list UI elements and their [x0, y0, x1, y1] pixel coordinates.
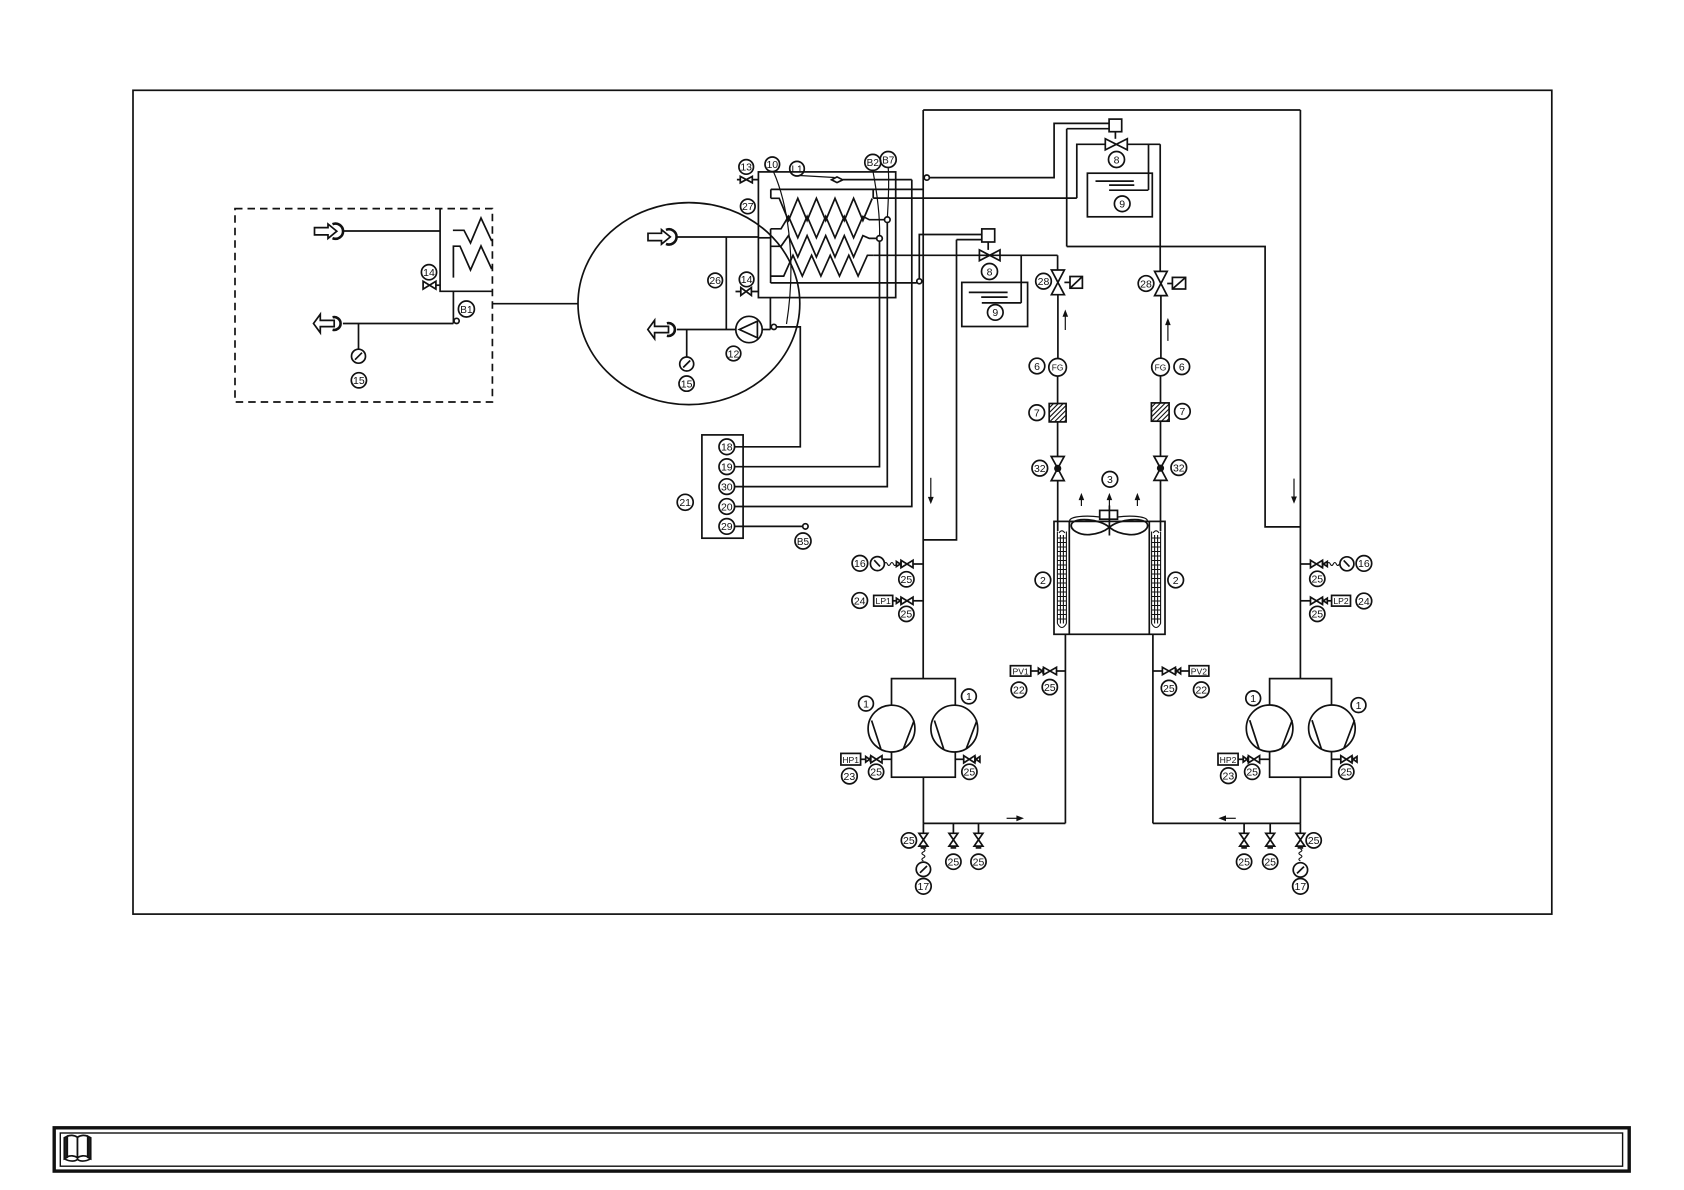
- label 12: [726, 346, 741, 361]
- HX-B header right step: [872, 189, 874, 198]
- svg-text:25: 25: [1264, 857, 1276, 869]
- HX-B left manifold: [770, 229, 772, 283]
- label 2 (right): [1168, 572, 1184, 588]
- svg-text:10: 10: [766, 159, 778, 171]
- filter drier 7 (circuit 1): [1049, 404, 1066, 422]
- outlet wire to out-arrow: [343, 323, 454, 325]
- svg-text:25: 25: [1044, 682, 1056, 694]
- svg-text:25: 25: [903, 835, 915, 847]
- receiver 9 (mid) liquid levels: [969, 292, 1021, 303]
- svg-text:32: 32: [1173, 462, 1185, 474]
- label 24 (circuit 2): [1356, 593, 1372, 609]
- coil element right (2): [1152, 531, 1161, 628]
- flow arrow down (circuit 2): [1291, 479, 1297, 504]
- pipe below valve 28 right: [1160, 296, 1162, 359]
- HX-A coil zigzag lower: [453, 246, 491, 278]
- receiver inlet dip tube (top): [1148, 144, 1150, 190]
- sensor arm line: [771, 282, 917, 284]
- terminal 29: [719, 519, 735, 535]
- svg-text:9: 9: [992, 307, 998, 319]
- wire L1 to terminal 20: [735, 180, 912, 507]
- wire B2 to terminal 19: [735, 241, 880, 467]
- wire inlet arrow to HX-A: [343, 230, 440, 232]
- label 10: [765, 157, 780, 172]
- leader line label 10: [774, 172, 791, 324]
- control line HX port to solenoid 8 top: [1067, 129, 1109, 247]
- fan blade right: [1109, 520, 1147, 535]
- svg-text:25: 25: [1246, 767, 1258, 779]
- discharge drop pipe (c2): [1299, 777, 1301, 823]
- coil partition right: [1148, 521, 1150, 634]
- label 25 (c1 drain 2): [946, 854, 961, 869]
- label 25 (HP2): [1245, 764, 1260, 779]
- HX-B header line top: [771, 188, 923, 190]
- outlet flow arrow (dashed box): [314, 314, 341, 333]
- HP1 transducer assembly: [841, 753, 892, 765]
- coil element left (2): [1057, 531, 1066, 628]
- svg-text:22: 22: [1195, 685, 1207, 697]
- sensor arm riser to solenoid: [919, 235, 982, 279]
- terminal 18: [719, 439, 735, 455]
- HP2 transducer assembly: [1218, 753, 1270, 765]
- pipe filter to valve 32 (circuit 1): [1057, 422, 1059, 457]
- LP1 transducer assembly: [874, 595, 924, 606]
- fan blade left: [1071, 520, 1109, 535]
- label 25 (c2 drain 1): [1237, 854, 1252, 869]
- leader line L1 to level sensor: [800, 176, 835, 178]
- svg-text:1: 1: [1250, 693, 1256, 705]
- svg-text:25: 25: [1340, 767, 1352, 779]
- equalizer line to suction main 2: [1067, 247, 1301, 527]
- tank inlet flow arrow: [648, 229, 677, 244]
- svg-text:25: 25: [1238, 857, 1250, 869]
- label 13: [739, 160, 754, 175]
- svg-text:B7: B7: [882, 155, 895, 166]
- HX-B box: [758, 172, 895, 298]
- svg-text:L1: L1: [791, 165, 803, 176]
- label 25 (c2 right valve): [1339, 764, 1354, 779]
- svg-text:B2: B2: [867, 158, 880, 169]
- outer frame border: [133, 90, 1552, 914]
- svg-text:29: 29: [721, 521, 733, 533]
- label 32 (circuit 2): [1171, 460, 1187, 476]
- tank top wire to HX-B: [676, 236, 758, 238]
- svg-text:28: 28: [1038, 276, 1050, 288]
- LP2 transducer assembly: [1300, 595, 1350, 606]
- svg-text:21: 21: [679, 497, 691, 509]
- control line lower to solenoid 8 mid: [957, 239, 982, 241]
- label 25 (LP1): [899, 606, 914, 621]
- drain valve 1 (c2): [1240, 823, 1249, 848]
- svg-text:15: 15: [681, 378, 693, 390]
- label 25 (LP2): [1310, 606, 1325, 621]
- label 25 (c1 right valve): [962, 764, 977, 779]
- svg-text:B1: B1: [460, 305, 473, 316]
- sight glass FG (circuit 2): [1152, 358, 1170, 376]
- tap node on suction main 1: [924, 175, 929, 180]
- drain valve 2 (c2): [1266, 823, 1275, 848]
- svg-text:B5: B5: [797, 537, 810, 548]
- svg-text:16: 16: [854, 558, 866, 570]
- suction/discharge manifold box (c2): [1270, 679, 1332, 778]
- label 26: [708, 273, 723, 288]
- label B2: [865, 154, 881, 170]
- svg-text:30: 30: [721, 481, 733, 493]
- label 14 (tank): [739, 272, 754, 287]
- label 9 (top): [1114, 196, 1130, 212]
- svg-text:23: 23: [844, 771, 856, 783]
- node B1 (tank): [771, 324, 776, 329]
- label 28 (left): [1036, 273, 1052, 289]
- flow arrow up (circuit 1 liquid): [1063, 310, 1069, 331]
- level sensor diamond L1: [832, 177, 843, 183]
- HX-A coil zigzag upper: [453, 218, 492, 243]
- svg-text:25: 25: [964, 767, 976, 779]
- terminal block box 21: [702, 435, 743, 538]
- air flow arrow up right: [1135, 493, 1141, 506]
- svg-text:22: 22: [1013, 685, 1025, 697]
- fan shroud right: [1118, 516, 1148, 522]
- svg-text:24: 24: [854, 595, 866, 607]
- pump 12: [736, 316, 762, 342]
- pipe riser to valve 8 top: [1077, 144, 1106, 198]
- receiver 9 (top): [1087, 173, 1152, 217]
- label 25 (c1 drain 1): [901, 833, 916, 848]
- suction/discharge manifold box (c1): [892, 679, 956, 778]
- filter drier 7 (circuit 2): [1151, 403, 1169, 421]
- svg-text:1: 1: [966, 691, 972, 703]
- port line to top valve 8: [873, 197, 1077, 199]
- fan motor box: [1100, 510, 1118, 519]
- flow arrow left (c2 discharge): [1218, 815, 1235, 821]
- pipe below valve 28 left: [1057, 295, 1059, 359]
- HX-B coil chain A: [771, 198, 872, 220]
- label 21: [677, 494, 693, 510]
- svg-text:25: 25: [901, 574, 913, 586]
- valve 32 (circuit 2): [1154, 456, 1167, 480]
- HX-B coil chain B: [771, 216, 885, 237]
- svg-text:2: 2: [1040, 575, 1046, 587]
- control line tap to solenoid 8 top: [929, 123, 1109, 177]
- gauge 15 (tank): [680, 357, 694, 371]
- tank outlet flow arrow: [648, 320, 675, 339]
- node B1 (dashed box): [454, 318, 459, 323]
- svg-text:25: 25: [901, 609, 913, 621]
- valve 32 (circuit 1): [1051, 457, 1064, 481]
- label 22 (circuit 1): [1011, 682, 1027, 698]
- flow arrow up (circuit 2 liquid): [1165, 318, 1171, 341]
- compressor 1 (c1 right): [931, 705, 978, 752]
- svg-text:16: 16: [1358, 558, 1370, 570]
- label 25 (c1 drain 3): [971, 854, 986, 869]
- sensor node B7: [885, 217, 891, 223]
- pipe filter to valve 32 (circuit 2): [1160, 421, 1162, 456]
- label 23 (c1): [842, 768, 858, 784]
- svg-text:20: 20: [721, 501, 733, 513]
- label 7 (circuit 2): [1175, 404, 1191, 420]
- fan shroud left: [1070, 516, 1100, 522]
- discharge drop pipe (c1): [922, 777, 924, 823]
- label 25 (gauge 16 c2): [1310, 571, 1325, 586]
- label 1 (c1 right): [962, 689, 977, 704]
- label 15 (dashed box): [351, 373, 366, 388]
- top gas pipe: [923, 109, 1300, 111]
- svg-text:25: 25: [948, 857, 960, 869]
- coil partition left: [1068, 521, 1070, 634]
- svg-text:7: 7: [1179, 406, 1185, 418]
- heat exchanger HX-A box (left/bottom solid edges): [440, 209, 492, 292]
- terminal 20: [719, 499, 735, 515]
- wire pump to node B1: [762, 329, 770, 331]
- suction main circuit 2: [1299, 110, 1301, 679]
- drain valve 3 (c1): [974, 823, 983, 848]
- svg-text:3: 3: [1107, 474, 1113, 486]
- HX-B coil chain C: [771, 236, 877, 257]
- svg-text:27: 27: [742, 201, 754, 213]
- label B1 (dashed box): [458, 301, 474, 317]
- gauge 16 assembly (circuit 1): [870, 557, 923, 571]
- connection line dashed box to tank: [492, 303, 578, 305]
- leader line B7: [887, 168, 888, 217]
- tank internal branch wire: [725, 237, 727, 330]
- sight glass FG (circuit 1): [1049, 359, 1067, 377]
- pipe valve 32 to coil (circuit 2): [1160, 480, 1162, 531]
- wire terminal 29 to B5: [735, 525, 803, 527]
- svg-text:25: 25: [1308, 835, 1320, 847]
- label 6 (circuit 2): [1174, 359, 1190, 375]
- label 6 (circuit 1): [1029, 358, 1045, 374]
- label 25 (c2 drain 3): [1306, 833, 1321, 848]
- label 3: [1102, 472, 1118, 488]
- svg-text:13: 13: [740, 162, 752, 174]
- compressor 1 (c2 right): [1309, 705, 1356, 752]
- pipe valve 32 to coil (circuit 1): [1057, 481, 1059, 531]
- svg-text:14: 14: [423, 267, 435, 279]
- gauge 16 assembly (circuit 2): [1300, 557, 1354, 571]
- label L1: [790, 161, 805, 176]
- svg-text:17: 17: [918, 881, 930, 893]
- discharge line (c2): [1153, 822, 1301, 824]
- solenoid coil square (valve 8 top): [1109, 119, 1122, 132]
- receiver 9 (mid): [962, 282, 1028, 326]
- valve 13: [737, 176, 759, 182]
- svg-text:25: 25: [973, 857, 985, 869]
- drain valve 2 (c1): [949, 823, 958, 848]
- gauge 15 stem (dashed box): [358, 324, 360, 350]
- label 32 (circuit 1): [1032, 460, 1048, 476]
- label 25 (PV1): [1042, 680, 1057, 695]
- svg-text:9: 9: [1119, 199, 1125, 211]
- pipe FG to filter (circuit 1): [1057, 376, 1059, 403]
- terminal 30: [719, 479, 735, 495]
- label 22 (circuit 2): [1194, 682, 1210, 698]
- svg-text:7: 7: [1034, 408, 1040, 420]
- terminal 19: [719, 459, 735, 475]
- solenoid square (28 left): [1064, 277, 1082, 289]
- gauge 17 (c2): [1293, 863, 1307, 877]
- label 27: [741, 199, 756, 214]
- PV2 assembly: [1153, 666, 1209, 677]
- tank bottom wire to pump: [677, 329, 736, 331]
- svg-text:1: 1: [863, 698, 869, 710]
- svg-text:2: 2: [1173, 575, 1179, 587]
- label B5: [795, 533, 811, 549]
- HX-B water port left: [758, 237, 770, 239]
- pipe to valve 28 right: [1159, 144, 1161, 271]
- label 28 (right): [1138, 276, 1154, 292]
- svg-text:FG: FG: [1052, 363, 1064, 373]
- coil outlet pipe (circuit 2): [1152, 634, 1154, 823]
- drain valve 1 (c1): [919, 823, 928, 848]
- leader line B2: [873, 170, 880, 235]
- gauge 17 capillary (c2): [1299, 849, 1302, 861]
- label 25 (gauge 16 c1): [899, 572, 914, 587]
- pipe HX-B bottom port down: [769, 298, 771, 330]
- service valve right (c2): [1332, 756, 1358, 763]
- svg-text:8: 8: [987, 266, 993, 278]
- svg-text:17: 17: [1295, 881, 1307, 893]
- discharge line (c1): [923, 822, 1065, 824]
- footer outer bar: [54, 1128, 1629, 1171]
- label 8 (mid): [982, 264, 998, 280]
- valve 14 (tank to HX-B): [736, 288, 759, 296]
- PV1 assembly: [1010, 666, 1065, 677]
- compressor 1 (c2 left): [1246, 705, 1293, 752]
- label 16 (circuit 1): [852, 556, 868, 572]
- wire B7 to terminal 30: [735, 223, 888, 487]
- pipe FG to filter (circuit 2): [1160, 376, 1162, 403]
- gauge 17 (c1): [916, 862, 930, 876]
- fan shaft: [1108, 506, 1110, 536]
- svg-text:32: 32: [1034, 463, 1046, 475]
- svg-text:25: 25: [1311, 574, 1323, 586]
- svg-text:6: 6: [1034, 361, 1040, 373]
- solenoid coil square (valve 8 mid): [982, 229, 995, 242]
- L1 sensing line to terminal 20 drop: [843, 179, 912, 181]
- svg-text:8: 8: [1114, 154, 1120, 166]
- svg-text:LP1: LP1: [876, 596, 892, 606]
- label 25 (HP1): [869, 764, 884, 779]
- svg-text:LP2: LP2: [1333, 596, 1349, 606]
- flow arrow right (c1 discharge): [1007, 815, 1024, 821]
- air flow arrow up middle: [1107, 493, 1113, 506]
- svg-text:12: 12: [728, 348, 740, 360]
- valve 8 top: [1105, 132, 1127, 150]
- label 16 (circuit 2): [1356, 556, 1372, 572]
- svg-text:PV2: PV2: [1191, 666, 1207, 676]
- svg-text:HP1: HP1: [842, 755, 859, 765]
- HX-B header left step: [770, 189, 772, 198]
- pipe HX-A bottom outlet: [452, 291, 454, 323]
- compressor 1 (c1 left): [868, 705, 915, 752]
- label 1 (c2 left): [1246, 691, 1261, 706]
- svg-text:15: 15: [353, 375, 365, 387]
- label 25 (PV2): [1161, 680, 1176, 695]
- coil outlet pipe (circuit 1): [1064, 634, 1066, 823]
- HX-B coil chain D: [771, 255, 874, 276]
- sensor wire B1 to terminal 18: [735, 327, 801, 447]
- label 17 (c2): [1293, 879, 1309, 895]
- label 9 (mid): [988, 305, 1004, 321]
- gauge 17 capillary (c1): [922, 849, 925, 861]
- label 1 (c2 right): [1351, 698, 1366, 713]
- svg-text:HP2: HP2: [1220, 755, 1237, 765]
- label 25 (c2 drain 2): [1263, 854, 1278, 869]
- label 8 (top): [1109, 152, 1125, 168]
- label 15 (tank): [679, 376, 694, 391]
- label 17 (c1): [916, 879, 932, 895]
- svg-text:24: 24: [1358, 596, 1370, 608]
- gauge 15 stem (tank): [686, 330, 688, 358]
- valve 8 mid: [979, 242, 1000, 261]
- equalizer joiner circuit 1: [923, 240, 956, 540]
- svg-text:FG: FG: [1155, 362, 1167, 372]
- svg-text:25: 25: [1311, 609, 1323, 621]
- solenoid square (28 right): [1167, 277, 1185, 289]
- valve 14 (dashed box): [423, 281, 440, 289]
- label 14 (dashed box): [421, 265, 436, 280]
- svg-text:14: 14: [741, 274, 753, 286]
- label 2 (left): [1035, 572, 1051, 588]
- label 1 (c1 left): [859, 696, 874, 711]
- svg-text:19: 19: [721, 462, 733, 474]
- svg-text:6: 6: [1179, 362, 1185, 374]
- footer inner bar: [60, 1133, 1622, 1166]
- svg-text:18: 18: [721, 442, 733, 454]
- service valve right (c1): [955, 756, 980, 763]
- label 23 (c2): [1221, 768, 1237, 784]
- liquid line to receivers: [873, 254, 1057, 256]
- label 24 (circuit 1): [852, 593, 868, 609]
- svg-text:25: 25: [870, 767, 882, 779]
- flow arrow down (circuit 1): [928, 478, 934, 504]
- book icon: [64, 1135, 90, 1161]
- valve 28 left: [1051, 270, 1064, 295]
- riser to valve 28 left: [1057, 255, 1059, 270]
- label 7 (circuit 1): [1029, 405, 1045, 421]
- drain valve 3 (c2): [1296, 823, 1305, 848]
- label B7: [880, 152, 896, 168]
- svg-text:PV1: PV1: [1012, 666, 1028, 676]
- coil unit box 2: [1054, 521, 1165, 634]
- pipe valve 8 top to receiver: [1127, 143, 1160, 145]
- sensor node B2: [877, 236, 883, 242]
- receiver inlet dip tube (mid): [1020, 255, 1022, 303]
- dashed system-boundary box: [235, 209, 492, 402]
- svg-text:25: 25: [1163, 683, 1175, 695]
- gauge 15 (dashed box): [352, 349, 366, 363]
- svg-text:1: 1: [1356, 700, 1362, 712]
- svg-text:26: 26: [709, 275, 721, 287]
- svg-text:23: 23: [1223, 771, 1235, 783]
- receiver 9 (top) liquid levels: [1096, 181, 1149, 190]
- tank circle: [578, 203, 800, 405]
- svg-text:28: 28: [1140, 278, 1152, 290]
- air flow arrow up left: [1079, 493, 1085, 506]
- node B5: [803, 524, 808, 529]
- valve 28 right: [1155, 271, 1168, 295]
- inlet flow arrow (dashed box): [315, 224, 344, 239]
- node on sensor arm: [917, 279, 922, 284]
- suction main circuit 1: [922, 110, 924, 679]
